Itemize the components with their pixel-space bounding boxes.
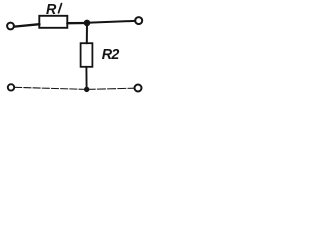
resistor R1: [39, 16, 67, 28]
svg-text:R: R: [46, 2, 57, 18]
wire: [86, 23, 88, 43]
wire: [14, 24, 39, 26]
svg-text:R2: R2: [102, 47, 120, 63]
terminal (top-left input): [7, 23, 14, 30]
terminal (bottom-left): [8, 84, 14, 90]
junction node (bottom): [84, 87, 89, 92]
wire: [85, 67, 87, 90]
junction node (top): [84, 20, 91, 27]
wire: [14, 87, 87, 89]
wire: [67, 22, 87, 25]
terminal (bottom-right): [135, 85, 142, 92]
wire: [87, 21, 135, 23]
terminal (top-right output): [135, 17, 142, 24]
wire: [87, 88, 135, 89]
resistor R2: [81, 43, 93, 67]
